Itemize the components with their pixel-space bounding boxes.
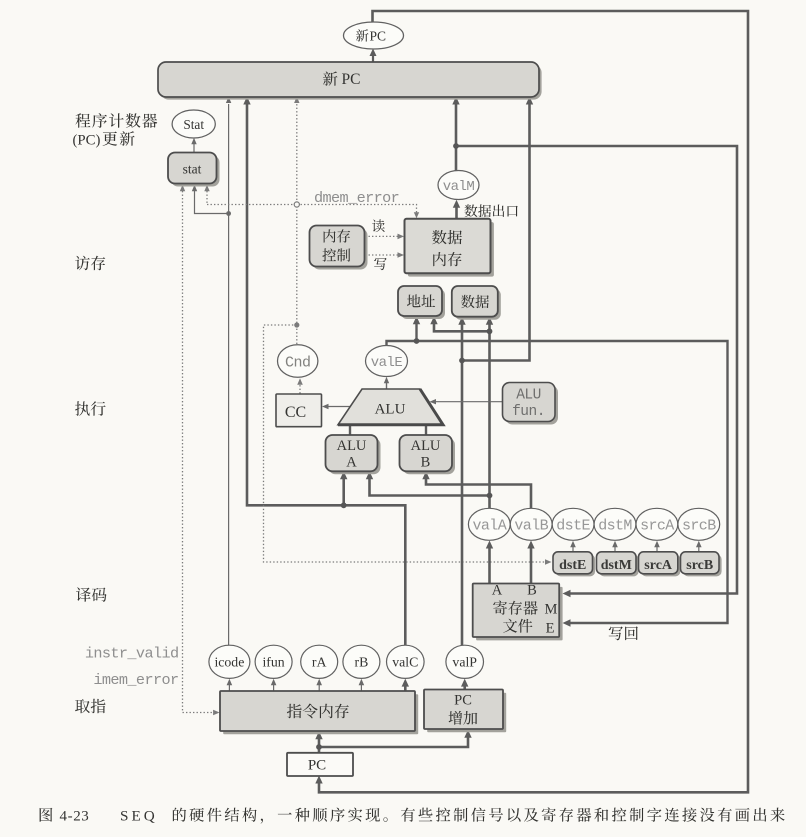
block ALU A — [326, 435, 381, 474]
svg-text:srcA: srcA — [644, 558, 673, 573]
stage label 程序计数器(PC)更新 — [73, 113, 158, 148]
svg-text:PC: PC — [308, 758, 326, 774]
block data-in 数据 — [452, 286, 501, 320]
wire: valP up into new-PC bar — [458, 97, 533, 647]
svg-text:dstE: dstE — [556, 518, 590, 535]
register srcB box — [681, 552, 722, 577]
label dmem_error — [314, 189, 399, 207]
wire: ALU fun. control into ALU right side — [430, 399, 503, 404]
ellipse dstE — [552, 508, 594, 540]
ellipse newPC 新PC (top output) — [344, 22, 404, 49]
svg-text:valB: valB — [514, 518, 548, 535]
svg-text:ALU: ALU — [411, 438, 441, 454]
wire: dotted imem_error/instr_valid line from stat down left side into instruction memory — [180, 185, 220, 715]
block instruction memory 指令内存 — [220, 691, 418, 734]
wire: new-PC bar output up into newPC ellipse — [370, 49, 377, 64]
register srcA box — [639, 552, 681, 577]
svg-text:stat: stat — [183, 162, 202, 177]
svg-text:ALU: ALU — [337, 438, 367, 454]
stage label 访存 — [75, 256, 105, 271]
wire: PC up into instruction memory, branch right up into PC increment — [315, 730, 471, 753]
ellipse valA — [468, 508, 510, 540]
ellipse srcA — [636, 508, 678, 540]
register dstM box — [597, 552, 639, 577]
wire: PC-increment output up into valP ellipse (thick) — [461, 679, 468, 690]
wire: instr memory outputs up into icode ifun rA rB ellipses (thin) — [227, 679, 365, 691]
label data out 数据出口 — [464, 204, 517, 217]
wire: register file port A up into valA ellipse — [486, 541, 493, 584]
svg-text:srcB: srcB — [682, 518, 716, 535]
wire: dotted dmem_error from stat down and right into data memory — [204, 185, 419, 219]
svg-text:ifun: ifun — [262, 655, 284, 670]
ALU trapezoid — [338, 389, 443, 425]
svg-text:instr_valid: instr_valid — [85, 645, 179, 663]
svg-text:srcB: srcB — [686, 558, 713, 573]
ellipse valE — [366, 346, 408, 377]
block CC condition codes — [276, 394, 322, 427]
ellipse ifun — [255, 645, 292, 678]
svg-text:M: M — [545, 602, 558, 618]
svg-text:rA: rA — [312, 655, 327, 670]
wire: ALU bottom connector to ALU A block — [349, 424, 351, 436]
block ALU B — [400, 435, 456, 474]
svg-text:ALU: ALU — [375, 402, 406, 418]
label write 写 — [374, 258, 387, 270]
ellipse srcB — [678, 508, 720, 540]
svg-text:valM: valM — [443, 179, 475, 195]
ellipse valB — [510, 508, 552, 540]
wire: dstM box up into dstM ellipse — [612, 541, 618, 552]
wire: dstE box up into dstE ellipse — [570, 541, 576, 552]
ellipse valP — [446, 645, 484, 678]
label imem_error — [93, 671, 178, 689]
svg-text:dstE: dstE — [559, 558, 586, 573]
ellipse icode — [209, 645, 250, 678]
wire: ALU left output into CC box — [322, 404, 350, 409]
block memory control 内存控制 — [310, 226, 368, 270]
svg-text:srcA: srcA — [640, 518, 674, 535]
svg-text:A: A — [492, 583, 503, 599]
label write back 写回 — [609, 626, 638, 640]
wire: new-PC loop (newPC ellipse top, around right side, into PC bottom) — [315, 11, 748, 792]
svg-text:(PC): (PC) — [73, 133, 101, 149]
label read 读 — [372, 219, 385, 232]
ellipse dstM — [594, 508, 636, 540]
wire: instr memory valC output up into valC ellipse (thick) — [402, 679, 409, 691]
register stat — [168, 153, 220, 187]
caption 图 4-23 — [40, 807, 785, 824]
wire: dotted CC up into Cnd ellipse — [297, 378, 303, 400]
svg-text:B: B — [527, 583, 537, 599]
wire: valA net - register A value up into data-in box, branches to ALU A and addr box — [366, 316, 493, 508]
ellipse valC — [387, 645, 425, 678]
svg-text:valP: valP — [452, 655, 477, 670]
crossover hop where Cnd dotted crosses dmem_error dotted — [294, 202, 299, 207]
svg-text:Stat: Stat — [183, 117, 204, 132]
svg-text:PC: PC — [370, 28, 387, 43]
svg-text:dstM: dstM — [601, 558, 632, 573]
svg-text:valE: valE — [371, 355, 403, 371]
wire: dotted branch from Cnd line to decode dstE box — [264, 325, 552, 565]
register PC — [287, 753, 353, 776]
stage label 取指 — [75, 699, 105, 714]
wire: valC up and left to new-PC bar, branch up into ALU A — [243, 97, 405, 647]
svg-text:PC: PC — [342, 71, 361, 88]
block address 地址 — [398, 286, 445, 319]
svg-text:valA: valA — [472, 518, 506, 535]
svg-text:E: E — [546, 621, 555, 637]
new-PC bar 新 PC — [158, 62, 542, 100]
stage label 执行 — [75, 401, 105, 416]
block register file 寄存器文件 — [473, 583, 563, 641]
svg-text:rB: rB — [355, 655, 369, 670]
ellipse rB — [343, 645, 380, 678]
ellipse Cnd — [278, 345, 318, 378]
wire: dotted read control from memory control into data memory — [365, 234, 404, 240]
stage label 译码 — [76, 587, 107, 601]
register dstE box — [553, 552, 595, 577]
wire: ALU bottom connector to ALU B block — [425, 424, 427, 436]
svg-text:icode: icode — [214, 655, 244, 670]
wire: valB net - up then left into ALU B — [422, 471, 531, 508]
svg-text:dmem_error: dmem_error — [314, 189, 399, 207]
ellipse rA — [301, 645, 338, 678]
svg-text:imem_error: imem_error — [93, 671, 178, 689]
svg-text:ALU: ALU — [516, 388, 541, 404]
wire: dotted Cnd up to new-PC bar — [294, 97, 299, 348]
wire: valM up into new-PC bar, branch right to register file M port (write back) — [452, 97, 737, 598]
svg-text:SEQ: SEQ — [120, 808, 158, 825]
wire: srcA box up into srcA ellipse — [654, 541, 660, 552]
wire: icode up to new-PC bar (thin), with branch into stat — [192, 97, 232, 646]
block ALU fun. — [503, 383, 559, 425]
wire: register file port B up into valB ellipse — [527, 541, 534, 584]
block data memory 数据内存 — [405, 219, 494, 277]
svg-text:A: A — [346, 455, 357, 471]
svg-text:valC: valC — [392, 655, 418, 670]
ellipse valM — [438, 171, 479, 200]
wire: data memory output up into valM ellipse — [453, 200, 460, 219]
ellipse Stat — [172, 110, 215, 138]
svg-text:B: B — [421, 455, 431, 471]
wire: srcB box up into srcB ellipse — [696, 541, 702, 552]
wire: dotted write control from memory control into data memory — [365, 252, 404, 258]
svg-text:PC: PC — [454, 693, 472, 709]
svg-text:dstM: dstM — [598, 518, 632, 535]
svg-text:Cnd: Cnd — [285, 354, 311, 371]
wire: stat register up into Stat ellipse — [191, 138, 196, 153]
label instr_valid — [85, 645, 179, 663]
wire: valE net - up, right, down into register file E port; branch up into addr box — [387, 316, 728, 626]
wire: ALU output up into valE ellipse — [384, 377, 389, 389]
block PC increment PC增加 — [424, 690, 506, 733]
svg-text:fun.: fun. — [512, 404, 545, 420]
svg-text:4-23: 4-23 — [60, 809, 90, 825]
svg-text:CC: CC — [285, 404, 306, 421]
